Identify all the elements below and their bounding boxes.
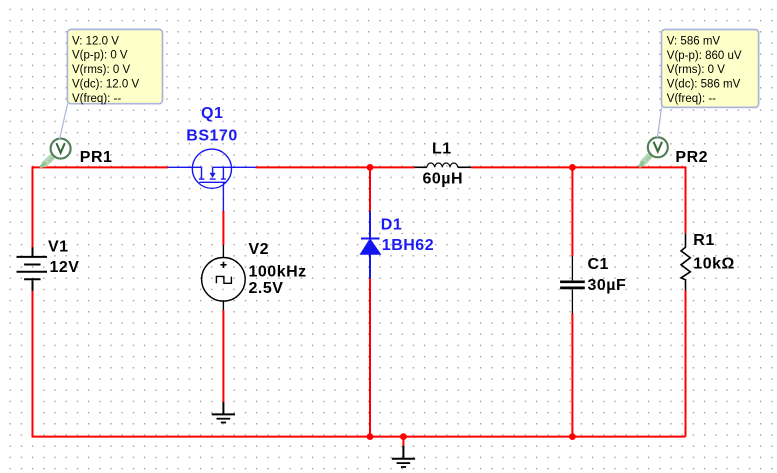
transistor Q1 (MOSFET BS170) <box>168 149 256 211</box>
wire top rail left segment (V1 to Q1) <box>33 166 169 168</box>
probe PR1 callout leader <box>60 104 68 140</box>
svg-text:V: 12.0 V: V: 12.0 V <box>72 35 119 47</box>
svg-text:V(p-p): 860 uV: V(p-p): 860 uV <box>667 50 742 62</box>
label V2 <box>249 241 270 258</box>
junction bottom rail at ground <box>400 433 407 440</box>
diode D1 <box>360 211 380 278</box>
value 12V <box>50 259 80 276</box>
svg-text:60µH: 60µH <box>423 170 464 187</box>
svg-text:V(dc): 586 mV: V(dc): 586 mV <box>667 79 741 91</box>
wire Q1 gate to V2 <box>222 211 224 245</box>
value 100kHz <box>249 263 307 280</box>
wire C1 branch upper <box>571 167 573 256</box>
ground at bottom rail <box>392 446 415 467</box>
svg-text:BS170: BS170 <box>186 128 237 145</box>
svg-text:R1: R1 <box>693 232 714 249</box>
svg-text:V2: V2 <box>249 241 270 258</box>
source V2 (clock 100kHz 2.5V) <box>202 245 246 310</box>
svg-text:100kHz: 100kHz <box>249 263 307 280</box>
svg-text:10kΩ: 10kΩ <box>693 255 735 272</box>
junction top rail at C1 <box>569 164 576 171</box>
junction top rail at D1 <box>367 164 374 171</box>
wire left rail (V1 branch) <box>32 166 34 437</box>
label PR2 <box>675 149 708 166</box>
label C1 <box>588 256 609 273</box>
svg-text:V(freq): --: V(freq): -- <box>72 93 121 105</box>
value 60uH <box>423 170 464 187</box>
svg-text:V(rms): 0 V: V(rms): 0 V <box>667 64 725 76</box>
wire D1 branch lower <box>369 278 371 436</box>
label L1 <box>432 140 452 157</box>
junction bottom rail at D1 <box>367 433 374 440</box>
wire top rail right segment (L1 to R1 corner) <box>471 166 685 168</box>
svg-text:2.5V: 2.5V <box>249 280 284 297</box>
svg-text:1BH62: 1BH62 <box>382 237 434 254</box>
svg-text:V1: V1 <box>48 239 69 256</box>
svg-text:D1: D1 <box>381 217 402 234</box>
value 30uF <box>588 277 627 294</box>
wire V2 to ground <box>222 310 224 402</box>
probe PR1 <box>41 139 70 167</box>
svg-text:L1: L1 <box>432 140 452 157</box>
junction bottom rail at C1 <box>569 433 576 440</box>
svg-text:V(rms): 0 V: V(rms): 0 V <box>72 64 130 76</box>
svg-text:PR2: PR2 <box>675 149 708 166</box>
svg-text:30µF: 30µF <box>588 277 627 294</box>
probe PR2 callout box <box>662 30 759 108</box>
capacitor C1 <box>560 256 585 314</box>
label R1 <box>693 232 714 249</box>
svg-text:V(p-p): 0 V: V(p-p): 0 V <box>72 50 128 62</box>
wire ground stub on bottom rail <box>402 437 404 447</box>
svg-text:V: 586 mV: V: 586 mV <box>667 35 721 47</box>
value 2.5V <box>249 280 284 297</box>
wire right rail (R1 branch) <box>685 166 687 436</box>
label PR1 <box>80 149 113 166</box>
inductor L1 <box>414 163 471 167</box>
svg-text:V(freq): --: V(freq): -- <box>667 93 716 105</box>
svg-text:PR1: PR1 <box>80 149 113 166</box>
label D1 <box>381 217 402 234</box>
probe PR2 callout leader <box>657 107 661 137</box>
wire top rail middle segment (Q1 to L1) <box>256 166 415 168</box>
svg-text:C1: C1 <box>588 256 609 273</box>
battery V1 <box>17 247 48 291</box>
value BS170 <box>186 128 237 145</box>
svg-text:Q1: Q1 <box>201 105 223 122</box>
svg-text:V(dc): 12.0 V: V(dc): 12.0 V <box>72 79 139 91</box>
wire bottom rail <box>33 436 686 438</box>
wire D1 branch upper <box>369 167 371 211</box>
label V1 <box>48 239 69 256</box>
probe PR1 callout box <box>67 29 162 105</box>
wire C1 branch lower <box>571 314 573 437</box>
ground below V2 <box>212 402 235 423</box>
value 10kOhm <box>693 255 735 272</box>
label Q1 <box>201 105 223 122</box>
probe PR2 <box>640 137 668 166</box>
resistor R1 <box>681 233 690 290</box>
svg-text:12V: 12V <box>50 259 80 276</box>
value 1BH62 <box>382 237 434 254</box>
